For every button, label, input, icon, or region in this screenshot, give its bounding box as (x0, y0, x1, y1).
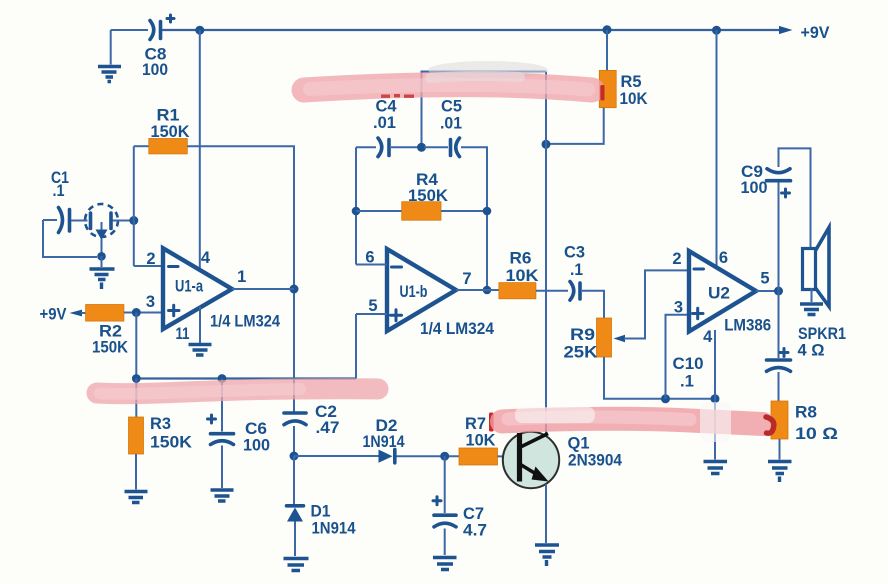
wire R4 left (356, 210, 402, 212)
node R4 left (352, 207, 361, 216)
resistor R5 (599, 70, 647, 107)
junction R5 on rail (603, 25, 612, 34)
wire R9 bottom to ground rail (604, 357, 715, 399)
wire C7 top (444, 456, 446, 513)
wire C4 to midpoint (391, 146, 419, 148)
svg-text:5: 5 (368, 297, 377, 315)
ground (R3) (125, 492, 148, 503)
wire R1 left (134, 145, 149, 147)
wire U2 pin 3 (666, 315, 690, 399)
wire twin-T top left corner (356, 146, 376, 148)
wire U1-a output (232, 288, 294, 290)
diode D2 (363, 417, 406, 463)
wire pin3 node down to bias rail (135, 313, 137, 379)
node U2 pin3 on ground rail (661, 394, 670, 403)
wire twin-T left vertical (355, 147, 357, 264)
wire C10 top stem (778, 291, 780, 358)
wire to D2 (294, 455, 379, 457)
ground (U2 pin 4) (704, 462, 728, 474)
svg-text:4.7: 4.7 (463, 522, 487, 540)
wire +9V top rail (162, 29, 779, 31)
wire C6 bottom (221, 446, 223, 489)
svg-text:10K: 10K (466, 432, 496, 450)
ground (C7) (433, 558, 457, 570)
capacitor C6 (208, 415, 271, 455)
wire C1 ground loop (43, 220, 97, 257)
capacitor C10 (673, 349, 791, 391)
wire R5 bottom to node (546, 108, 604, 144)
svg-text:R7: R7 (465, 415, 486, 433)
svg-text:1/4 LM324: 1/4 LM324 (210, 313, 281, 331)
wire U1-b pin 5 (356, 314, 387, 379)
wire speaker to ground (811, 288, 813, 302)
ground (C6) (211, 490, 234, 501)
svg-text:D1: D1 (311, 503, 331, 521)
node D1/D2/C2 (290, 452, 299, 461)
microphone MIC1 (71, 204, 131, 253)
ground (D1) (284, 559, 309, 571)
capacitor C5 (440, 98, 462, 157)
svg-text:6: 6 (719, 249, 728, 267)
svg-text:SPKR1: SPKR1 (798, 325, 846, 343)
svg-text:+9V: +9V (40, 306, 67, 324)
resistor R7 (459, 415, 498, 465)
wire C2 bottom to diode node (293, 426, 295, 456)
svg-text:.1: .1 (680, 373, 694, 391)
svg-text:100: 100 (741, 179, 768, 197)
resistor R9 potentiometer (564, 270, 690, 361)
capacitor C2 (284, 403, 340, 437)
svg-text:+9V: +9V (801, 24, 830, 42)
wire R4 right (441, 210, 487, 212)
resistor R3 (129, 415, 193, 454)
svg-text:.01: .01 (440, 115, 462, 133)
wire D1 bottom (294, 522, 296, 557)
op-amp U2 (672, 249, 771, 346)
wire R6 to C3 (536, 290, 568, 292)
capacitor C8 (111, 15, 174, 79)
node +9V left arrow (40, 306, 86, 324)
svg-text:R3: R3 (150, 415, 171, 433)
svg-text:.47: .47 (316, 419, 340, 437)
node +9V arrow (779, 24, 830, 42)
svg-text:1N914: 1N914 (363, 433, 406, 451)
svg-text:LM386: LM386 (724, 317, 771, 335)
svg-text:100: 100 (142, 61, 168, 79)
wire D1 top (293, 456, 295, 505)
svg-text:U1-a: U1-a (175, 278, 204, 296)
svg-text:2: 2 (672, 250, 681, 268)
wire U1-a pin 3 (124, 312, 163, 314)
junction U2 pin6 on rail (712, 26, 721, 35)
smudge bottom-left (pink highlighter) (97, 389, 378, 394)
smudge top (pink highlighter) (304, 61, 592, 90)
svg-text:C4: C4 (376, 98, 398, 116)
svg-text:25K: 25K (564, 344, 598, 362)
capacitor C4 (373, 98, 397, 157)
node U1-b output feedback (483, 286, 492, 295)
red handwriting traces under top smudge (381, 94, 414, 98)
svg-text:C7: C7 (463, 505, 484, 523)
wire R5 top (606, 30, 608, 70)
op-amp U1-b (365, 248, 494, 338)
node C7 junction (440, 452, 449, 461)
smudge right (pink highlighter over Q1/R8 row) (502, 402, 763, 442)
resistor R1 (149, 107, 190, 154)
capacitor C1 (43, 169, 70, 233)
svg-text:11: 11 (176, 325, 190, 343)
wire Q1 collector line (545, 72, 547, 437)
wire C10 to R8 (778, 372, 780, 401)
wire C6 top (221, 379, 223, 432)
svg-text:150K: 150K (150, 434, 192, 452)
svg-text:10K: 10K (620, 90, 648, 108)
ground (Q1 emitter) (535, 545, 559, 557)
wire U1-b output (456, 289, 499, 291)
svg-text:1N914: 1N914 (312, 520, 357, 538)
wire R1 right feedback to output and down to C2 (187, 146, 294, 411)
wire R3 bottom (135, 454, 137, 490)
svg-text:4: 4 (703, 328, 713, 346)
node C1/mic/R1/pin2 (129, 216, 138, 225)
wire Q1 emitter to ground (545, 484, 547, 543)
svg-text:150K: 150K (92, 339, 128, 357)
wire C5 to right corner, down to R4 right node (461, 147, 487, 290)
ground (R8) (768, 462, 792, 474)
resistor R6 (499, 250, 539, 299)
node R5/C4C5/Q1 collector junction (542, 140, 551, 149)
node U1-a output junction (290, 285, 299, 294)
ground (speaker) (800, 304, 823, 315)
svg-text:10 Ω: 10 Ω (795, 425, 838, 443)
resistor R4 (402, 171, 448, 220)
wire U1-a pin 11 (199, 307, 201, 344)
svg-text:C6: C6 (245, 420, 267, 438)
svg-text:R6: R6 (510, 250, 532, 268)
op-amp U1-a (146, 248, 281, 343)
ground (microphone) (90, 256, 115, 289)
svg-text:.01: .01 (373, 114, 396, 132)
svg-text:Q1: Q1 (568, 435, 590, 453)
node bias rail left (132, 374, 141, 383)
svg-text:100: 100 (243, 437, 270, 455)
svg-text:C10: C10 (673, 355, 704, 373)
svg-text:150K: 150K (408, 187, 448, 205)
svg-text:C3: C3 (564, 244, 585, 262)
svg-text:R9: R9 (570, 326, 595, 344)
wire U1-a pin 4 (199, 30, 201, 269)
wire D2 to R7 (397, 455, 460, 457)
svg-text:7: 7 (462, 270, 471, 288)
wire U2 pin 4 down to ground (714, 330, 716, 460)
svg-text:2: 2 (146, 250, 155, 268)
svg-text:3: 3 (674, 298, 683, 316)
node U2 pin4 on ground rail (711, 394, 720, 403)
wire C9 bottom stem (778, 182, 780, 291)
node bias rail C6 (218, 374, 227, 383)
svg-text:10K: 10K (506, 267, 539, 285)
svg-text:.1: .1 (570, 261, 583, 279)
wire U2 pin 6 (716, 30, 718, 267)
speaker SPKR1 (798, 228, 847, 360)
wire R7 to Q1 base (498, 455, 518, 457)
wire mic node vertical (133, 146, 135, 266)
svg-text:5: 5 (760, 270, 769, 288)
transistor Q1 (503, 432, 623, 488)
wire hidden link C4/C5 midpoint up and over to collector line (422, 72, 547, 148)
svg-text:.1: .1 (53, 182, 65, 200)
svg-text:R8: R8 (795, 404, 817, 422)
resistor R2 (86, 305, 128, 357)
svg-text:2N3904: 2N3904 (568, 452, 623, 470)
svg-text:150K: 150K (151, 123, 190, 141)
svg-text:4: 4 (201, 249, 211, 267)
diode D1 (287, 503, 357, 538)
svg-text:R5: R5 (621, 73, 642, 91)
wire C7 bottom (444, 529, 446, 556)
svg-text:1/4 LM324: 1/4 LM324 (420, 320, 495, 338)
wire C9 top over to speaker (779, 148, 811, 248)
node mic ground junction (97, 252, 106, 261)
svg-text:C5: C5 (441, 98, 462, 116)
ground (top left near C8) (98, 30, 121, 82)
wire bias rail (136, 377, 356, 379)
wire U2 output (756, 290, 779, 292)
svg-text:1: 1 (237, 268, 246, 286)
node R2/pin3 (132, 308, 141, 317)
red mark after R7 label (489, 413, 494, 432)
node C4/C5 midpoint (417, 143, 426, 152)
svg-text:4 Ω: 4 Ω (798, 342, 825, 360)
svg-text:R1: R1 (157, 107, 180, 125)
wire R8 bottom (779, 439, 781, 460)
junction U1-a pin4 on rail (195, 26, 204, 35)
capacitor C9 (741, 163, 791, 197)
wire U1-a pin 2 (134, 265, 163, 267)
red dash on R5 (over smudge) (600, 85, 604, 101)
ground (U1-a pin 11) (189, 345, 212, 356)
capacitor C7 (433, 497, 487, 540)
dark red hook at R8 left edge (766, 417, 774, 433)
node R4 right (483, 207, 492, 216)
resistor R8 (771, 401, 838, 443)
capacitor C3 (564, 244, 585, 301)
svg-text:U1-b: U1-b (400, 283, 428, 301)
svg-text:3: 3 (146, 293, 155, 311)
wire C3 to R9 top (582, 291, 604, 318)
svg-text:U2: U2 (708, 285, 730, 303)
wire U1-b pin 6 (356, 264, 387, 266)
node U2 output junction (774, 287, 783, 296)
wire midpoint to C5 (424, 146, 448, 148)
wire R3 top (135, 379, 137, 418)
